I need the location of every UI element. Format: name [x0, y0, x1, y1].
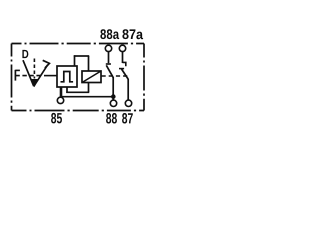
arm tip crossbar 87 [119, 68, 124, 70]
contact hook 87a [123, 62, 126, 66]
wire coil top [88, 56, 90, 71]
terminal 85 [57, 97, 63, 103]
switch arm 88a-88 [106, 65, 113, 77]
mechanical link left (dashed) [15, 75, 43, 77]
manual actuator [14, 70, 16, 81]
relay enclosure right border (dash-dot) [143, 44, 145, 111]
terminal 88a [105, 45, 111, 51]
svg-text:D: D [22, 47, 29, 61]
dial shaft (dashed vertical) [33, 59, 35, 79]
wire coil return [66, 91, 89, 93]
relay enclosure top border (dash-dot) [12, 43, 145, 45]
mechanical link coil to contacts (dashed) [102, 75, 128, 77]
svg-text:85: 85 [51, 111, 63, 127]
terminal 87 [125, 100, 131, 106]
pulse symbol [61, 72, 74, 82]
wire arm to 88 [112, 77, 114, 100]
coil diagonal [82, 71, 101, 83]
relay enclosure left border (dash-dot) [11, 44, 13, 111]
svg-text:88: 88 [106, 111, 118, 127]
wire 88a lead [108, 52, 110, 64]
adjustment arrow shaft [34, 65, 48, 86]
switch arm 87a-87 [122, 69, 129, 79]
dial left stroke [23, 60, 34, 86]
terminal 87a [119, 45, 125, 51]
wire timer to 85 [60, 87, 63, 97]
wire timer coil pin [66, 87, 68, 93]
wire 85/88 bus [60, 96, 113, 98]
junction node 88 [111, 94, 116, 99]
adjustment arrowhead [43, 60, 50, 68]
wire timer to coil top [74, 55, 89, 57]
timer unit U1 [57, 66, 77, 87]
wire timer input [44, 75, 57, 77]
wire timer top pin [74, 55, 76, 66]
wire coil bottom [88, 83, 90, 93]
relay enclosure bottom border (dash-dot) [12, 110, 145, 112]
wire 87a lead [122, 52, 124, 63]
svg-text:87: 87 [122, 111, 134, 127]
relay coil K1 [82, 71, 101, 83]
wire arm to 87 [127, 79, 129, 100]
svg-text:88a: 88a [100, 26, 119, 42]
svg-text:87a: 87a [122, 26, 143, 42]
contact crossbar 88a [106, 63, 111, 65]
terminal 88 [110, 100, 116, 106]
dial down arrowhead [31, 79, 38, 87]
